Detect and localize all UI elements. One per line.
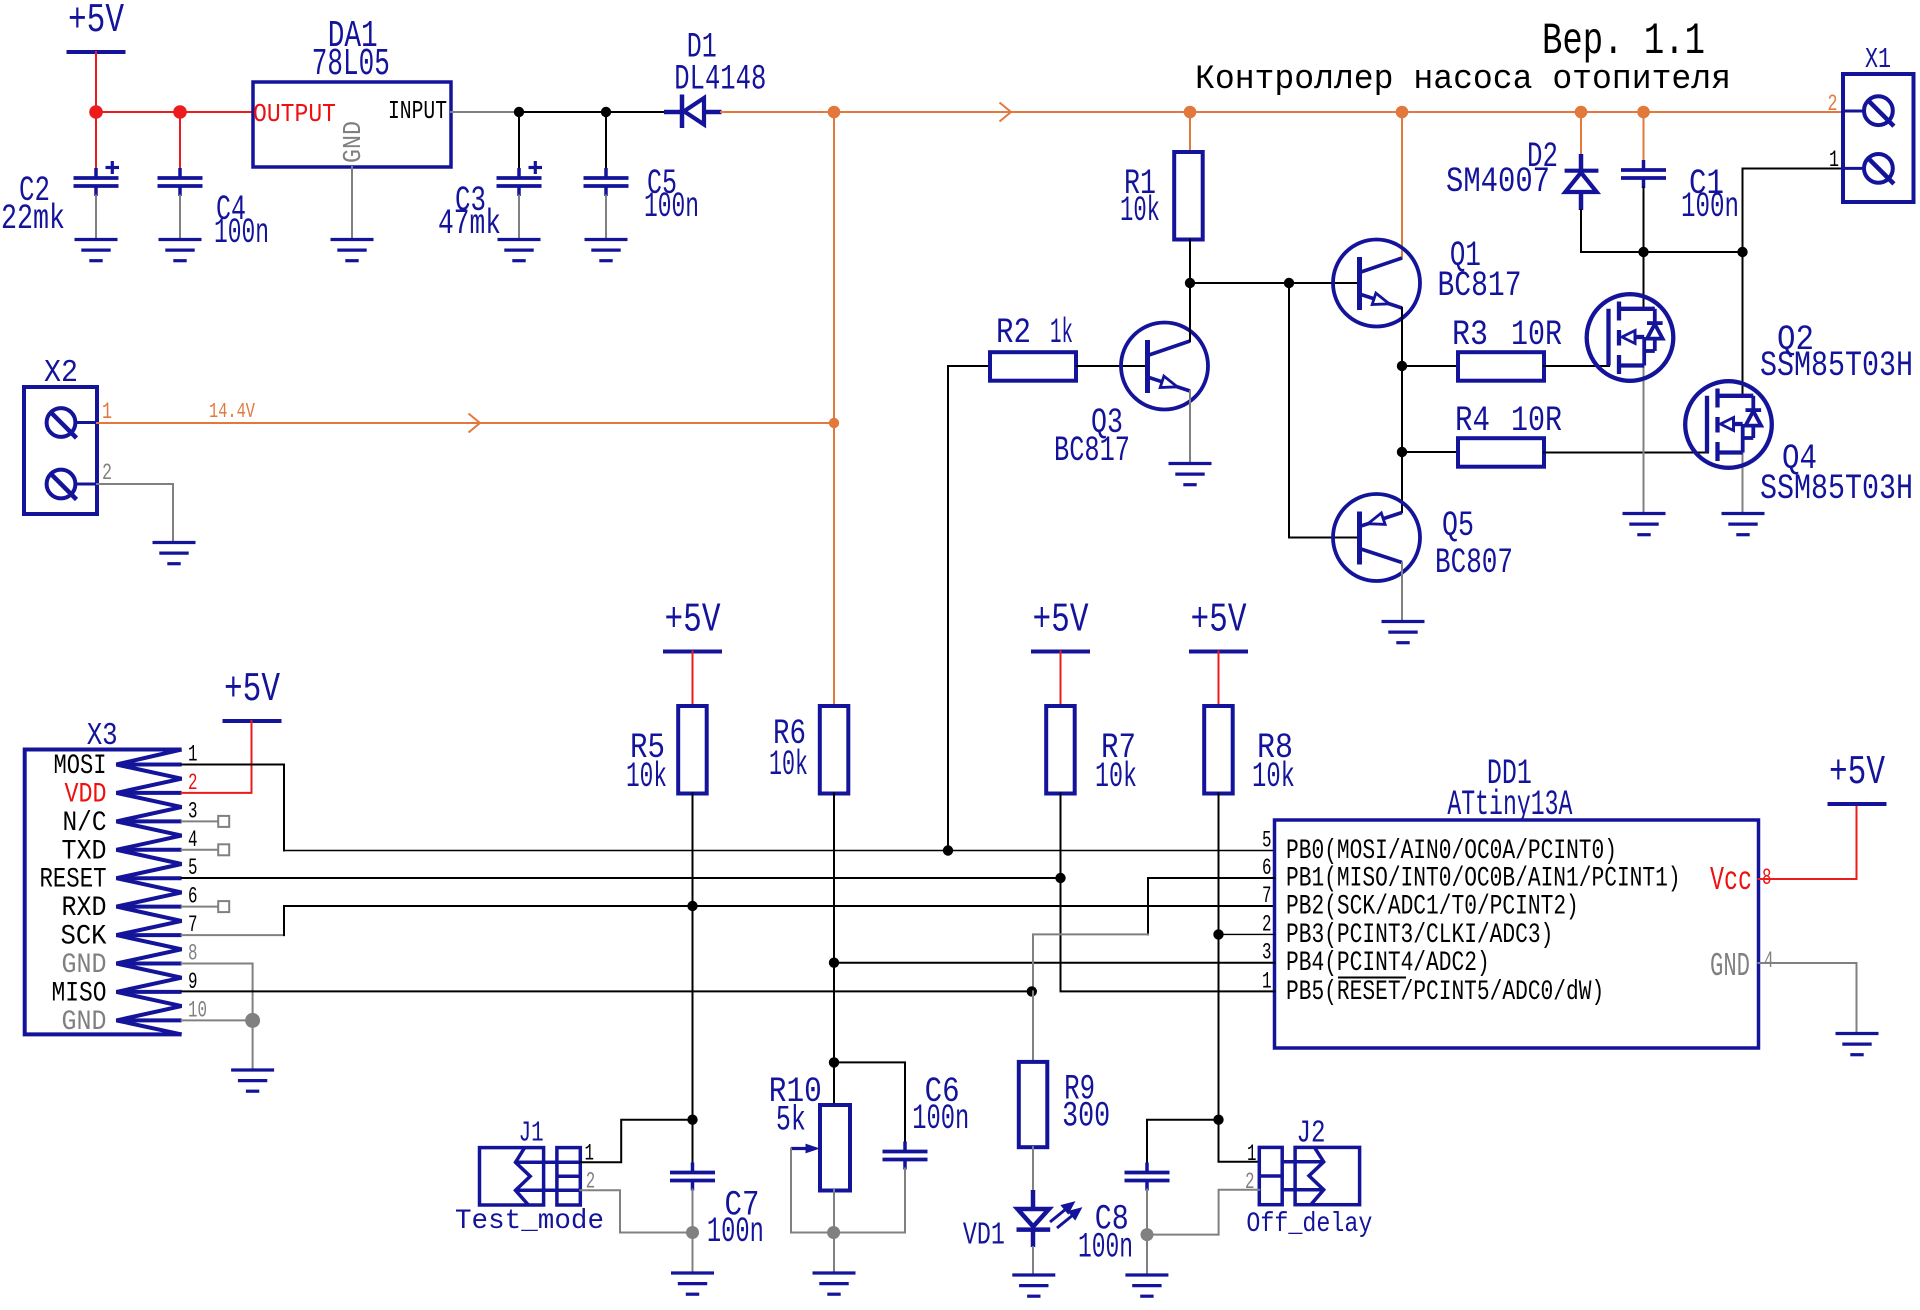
svg-text:PB3(PCINT3/CLKI/ADC3): PB3(PCINT3/CLKI/ADC3) <box>1286 920 1553 951</box>
wire C3 top lead <box>518 112 520 169</box>
ground VD1 <box>1012 1275 1055 1296</box>
pin GND label (rotated) <box>339 121 368 163</box>
wire vertical to Q5 base <box>1289 283 1360 538</box>
node junction C3 <box>514 107 524 117</box>
wire C8 bottom lead <box>1146 1190 1148 1235</box>
svg-text:PB0(MOSI/AIN0/OC0A/PCINT0): PB0(MOSI/AIN0/OC0A/PCINT0) <box>1286 836 1617 867</box>
resistor R9 300 <box>1019 1062 1048 1147</box>
wire R10 top lead <box>833 1062 835 1105</box>
wire J1 pin1 <box>580 1120 692 1163</box>
X1 screw 1 <box>1864 154 1893 183</box>
+5V power symbol above R7 <box>1031 598 1090 652</box>
wire X3 RXD stub <box>182 906 218 908</box>
wire R2 left / PB0 riser <box>948 366 990 851</box>
svg-text:10R: 10R <box>1511 401 1562 441</box>
transistor Q4 SSM85T03H (P-MOSFET) <box>1685 381 1772 468</box>
diode D1 DL4148 <box>664 95 722 129</box>
node junction MISO <box>1027 986 1037 996</box>
jumper J1 <box>480 1148 581 1205</box>
svg-text:VD1: VD1 <box>963 1217 1005 1254</box>
svg-text:PB1(MISO/INT0/OC0B/AIN1/PCINT1: PB1(MISO/INT0/OC0B/AIN1/PCINT1) <box>1286 864 1681 895</box>
wire Q3 collector <box>1189 283 1191 341</box>
capacitor C8 <box>1125 1163 1170 1191</box>
svg-text:10R: 10R <box>1511 315 1562 355</box>
wire R10 bottom lead <box>833 1190 835 1233</box>
wire R1 bottom lead <box>1189 240 1191 284</box>
ground C2 <box>75 240 118 261</box>
wire PB1 jog lower <box>1033 934 1148 991</box>
node junction R3 <box>1397 361 1407 371</box>
svg-text:+5V: +5V <box>224 667 280 713</box>
svg-text:Контроллер насоса отопителя: Контроллер насоса отопителя <box>1195 61 1731 99</box>
svg-text:INPUT: INPUT <box>388 97 447 126</box>
svg-text:GND: GND <box>62 1007 107 1038</box>
wire Vcc to +5V <box>1759 804 1857 879</box>
wire D2 bottom lead <box>1580 210 1582 252</box>
node junction PB2/R5 <box>687 901 697 911</box>
node junction C8/R8 <box>1213 1115 1223 1125</box>
node junction C8 gnd <box>1141 1228 1154 1241</box>
svg-text:1: 1 <box>1247 1141 1257 1167</box>
ground X2 <box>153 543 196 564</box>
wire X1 pin1 <box>1743 169 1844 253</box>
wire D2 top lead <box>1580 112 1582 154</box>
svg-text:22mk: 22mk <box>1 199 65 239</box>
svg-text:100n: 100n <box>1681 187 1739 227</box>
wire DA1 input net <box>451 111 519 113</box>
wire RESET net <box>182 877 1061 879</box>
wire PB2 net <box>284 905 1275 907</box>
wire +5V output rail <box>96 111 253 113</box>
+5V power symbol top-left <box>67 0 126 52</box>
wire R3 to Q2 gate <box>1544 365 1609 367</box>
wire R10 wiper <box>791 1149 834 1233</box>
svg-text:300: 300 <box>1062 1096 1110 1136</box>
capacitor C7 <box>670 1163 715 1191</box>
resistor R7 10k <box>1046 706 1075 794</box>
svg-text:Q5: Q5 <box>1442 506 1474 546</box>
wire PB0 net <box>284 850 1275 852</box>
svg-text:2: 2 <box>1262 911 1272 937</box>
wire arrow on 14.4V <box>469 414 481 433</box>
svg-text:2: 2 <box>1828 91 1838 117</box>
svg-text:N/C: N/C <box>63 808 107 839</box>
svg-text:+5V: +5V <box>665 598 721 644</box>
wire Q2 source to node <box>1643 252 1645 309</box>
svg-text:DL4148: DL4148 <box>674 60 766 100</box>
ground DD1 <box>1836 1034 1879 1055</box>
node junction C2 <box>89 105 103 119</box>
svg-text:100n: 100n <box>707 1212 764 1252</box>
svg-text:SCK: SCK <box>61 922 107 953</box>
wire R9 top lead <box>1032 991 1034 1062</box>
wire Q3 emitter to ground <box>1189 391 1191 464</box>
svg-text:1k: 1k <box>1050 313 1073 353</box>
ground Q2 <box>1623 514 1666 535</box>
wire PB4 net <box>834 962 1275 964</box>
transistor Q5 BC807 <box>1333 494 1420 581</box>
svg-text:GND: GND <box>62 950 107 981</box>
X1 screw 2 <box>1864 96 1893 125</box>
resistor R5 10k <box>678 706 707 794</box>
wire C2 bottom lead <box>95 196 97 239</box>
svg-text:5k: 5k <box>776 1101 806 1141</box>
svg-text:100n: 100n <box>912 1099 969 1139</box>
ground R10 <box>813 1273 856 1294</box>
wire R1 top lead <box>1189 112 1191 152</box>
wire PB1 jog upper <box>1148 878 1275 934</box>
wire R4 left lead <box>1402 451 1458 453</box>
svg-text:BC817: BC817 <box>1054 431 1130 471</box>
wire 14.4V from X2 <box>97 422 834 424</box>
capacitor C4 <box>158 168 203 196</box>
svg-text:J2: J2 <box>1297 1115 1326 1152</box>
svg-text:R3: R3 <box>1452 315 1488 355</box>
svg-text:RESET: RESET <box>40 865 107 896</box>
wire DA1 GND lead <box>351 167 353 238</box>
svg-text:100n: 100n <box>1078 1227 1133 1267</box>
svg-text:X3: X3 <box>87 717 118 754</box>
wire Q1 emitter chain <box>1401 308 1403 512</box>
svg-text:4: 4 <box>1764 948 1774 974</box>
wire X3 ground lead <box>252 1020 254 1070</box>
svg-text:Vcc: Vcc <box>1710 862 1752 900</box>
IC DD1 ATtiny13A <box>1275 820 1759 1048</box>
wire J1 pin2 <box>580 1190 692 1232</box>
capacitor C1 <box>1621 160 1666 188</box>
wire C1 top lead <box>1643 112 1645 161</box>
svg-text:2: 2 <box>102 460 112 486</box>
wire C8 ground lead <box>1146 1235 1148 1275</box>
wire C3 bottom lead <box>518 196 520 239</box>
wire C7 bottom lead <box>692 1190 694 1233</box>
node junction Q5 base tee <box>1284 278 1294 288</box>
wire Q4 drain to ground <box>1742 453 1744 514</box>
svg-text:X2: X2 <box>44 354 78 391</box>
svg-text:+5V: +5V <box>1829 750 1885 796</box>
potentiometer R10 5k <box>820 1105 850 1191</box>
ground Q3 <box>1169 464 1212 485</box>
svg-text:GND: GND <box>1710 948 1750 986</box>
svg-text:10k: 10k <box>1252 757 1295 797</box>
wire R8 top lead <box>1218 652 1220 707</box>
svg-text:100n: 100n <box>644 187 699 227</box>
resistor R2 1k <box>990 352 1076 381</box>
node rail junction R1 <box>1184 106 1197 119</box>
svg-text:14.4V: 14.4V <box>209 400 255 424</box>
wire C5 top lead <box>605 112 607 169</box>
svg-text:OUTPUT: OUTPUT <box>253 100 336 129</box>
connector X3 <box>25 750 182 1035</box>
jumper J2 <box>1259 1147 1359 1204</box>
svg-text:1: 1 <box>1829 147 1839 173</box>
svg-text:5: 5 <box>1262 828 1272 854</box>
node rail junction C1 <box>1637 106 1650 119</box>
wire C7 top lead <box>692 1120 694 1163</box>
node junction PB4/R6 <box>829 958 839 968</box>
wire VD1 cathode lead <box>1032 1247 1034 1275</box>
wire PB3 net <box>1219 933 1275 935</box>
svg-text:78L05: 78L05 <box>312 43 390 86</box>
wire C5 bottom lead <box>605 196 607 239</box>
node junction C1 bottom <box>1638 247 1648 257</box>
node junction C7/J1 <box>687 1115 697 1125</box>
diode D2 SM4007 <box>1565 154 1599 210</box>
connector X1 <box>1843 74 1914 202</box>
ground DA1 <box>331 240 374 261</box>
wire +5V to output rail <box>95 52 97 112</box>
ground C7 <box>671 1273 714 1294</box>
resistor R3 10R <box>1458 352 1544 381</box>
wire C8 branch <box>1147 1120 1219 1163</box>
regulator DA1 78L05 <box>253 82 451 167</box>
wire X3 SCK jog <box>182 934 284 936</box>
svg-text:100n: 100n <box>214 213 269 253</box>
node junction R1/Q1 base <box>1185 278 1195 288</box>
svg-text:+5V: +5V <box>1191 598 1247 644</box>
node rail junction D2 <box>1575 106 1588 119</box>
LED VD1 <box>1017 1190 1051 1247</box>
X2 screw 2 <box>47 470 76 499</box>
svg-text:PB5(RESET/PCINT5/ADC0/dW): PB5(RESET/PCINT5/ADC0/dW) <box>1286 977 1604 1008</box>
wire X3 GND pin10 <box>182 1019 253 1021</box>
capacitor C6 <box>883 1142 928 1170</box>
wire R4 to Q4 gate <box>1544 452 1708 454</box>
svg-text:BC807: BC807 <box>1435 543 1513 583</box>
svg-text:MISO: MISO <box>52 978 107 1009</box>
wire C2 top lead <box>95 112 97 169</box>
ground Q5 <box>1382 622 1425 643</box>
node junction RESET/R7 <box>1055 873 1065 883</box>
wire Q4 source to node <box>1742 252 1744 396</box>
node junction 14.4V/R6 <box>829 418 839 428</box>
node junction R10/C6 <box>829 1057 839 1067</box>
+5V power symbol above X3 <box>223 667 282 721</box>
svg-text:10k: 10k <box>1120 191 1160 231</box>
wire R7 top lead <box>1060 652 1062 707</box>
svg-text:47mk: 47mk <box>438 204 501 244</box>
wire Q5 collector to ground <box>1401 563 1403 622</box>
node junction Q4 top <box>1737 247 1747 257</box>
svg-text:J1: J1 <box>519 1116 544 1149</box>
transistor Q2 SSM85T03H (P-MOSFET) <box>1587 294 1674 381</box>
wire R3 left lead <box>1402 365 1458 367</box>
wire R2 to Q3 base <box>1077 365 1148 367</box>
wire R10 ground lead <box>833 1233 835 1274</box>
ground C4 <box>159 240 202 261</box>
node rail junction R6 <box>828 106 841 119</box>
wire DD1 GND <box>1759 963 1857 1034</box>
wire X3 MOSI jog <box>182 765 284 851</box>
wire C4 bottom lead <box>179 196 181 239</box>
wire X2 pin2 to ground <box>97 484 173 543</box>
svg-text:+5V: +5V <box>1033 598 1089 644</box>
svg-text:RXD: RXD <box>62 893 107 924</box>
svg-text:TXD: TXD <box>62 836 107 867</box>
wire snubber net <box>1581 251 1743 253</box>
transistor Q3 BC817 <box>1121 323 1208 410</box>
resistor R8 10k <box>1204 706 1233 794</box>
connector X2 <box>24 387 97 514</box>
svg-text:SSM85T03H: SSM85T03H <box>1760 346 1913 386</box>
node rail junction Q1 <box>1396 106 1409 119</box>
VD1 light arrows <box>1050 1204 1080 1229</box>
svg-text:R4: R4 <box>1455 401 1490 441</box>
capacitor C5 <box>584 168 629 196</box>
wire base net Q1 <box>1190 282 1360 284</box>
capacitor C3 <box>497 168 542 196</box>
svg-text:2: 2 <box>1245 1169 1255 1195</box>
resistor R6 10k <box>820 706 849 794</box>
wire R6 top lead <box>833 112 835 706</box>
svg-text:PB4(PCINT4/ADC2): PB4(PCINT4/ADC2) <box>1286 948 1490 979</box>
svg-text:ATtiny13A: ATtiny13A <box>1447 785 1572 825</box>
svg-text:7: 7 <box>1262 883 1272 909</box>
wire MISO net <box>182 990 1032 992</box>
svg-text:PB2(SCK/ADC1/T0/PCINT2): PB2(SCK/ADC1/T0/PCINT2) <box>1286 892 1579 923</box>
svg-text:Test_mode: Test_mode <box>455 1206 604 1237</box>
+5V power symbol above R5 <box>663 598 722 652</box>
wire R5 bottom vertical <box>692 794 694 1120</box>
X2 screw 1 <box>47 408 76 437</box>
wire C6 branch <box>834 1062 905 1142</box>
ground Q4 <box>1722 514 1765 535</box>
svg-text:Вер. 1.1: Вер. 1.1 <box>1542 17 1705 67</box>
svg-text:+5V: +5V <box>68 0 124 44</box>
wire J2 pin2 <box>1147 1190 1259 1235</box>
node junction C5 <box>601 107 611 117</box>
wire R7 bottom vertical / PB5 <box>1061 794 1275 992</box>
node junction PB0/R2 <box>943 845 953 855</box>
node junction R4 <box>1397 447 1407 457</box>
ground C3 <box>498 240 541 261</box>
svg-text:BC817: BC817 <box>1438 266 1522 306</box>
transistor Q1 BC817 <box>1333 240 1420 327</box>
ground C5 <box>585 240 628 261</box>
+5V power symbol at DD1 <box>1828 750 1887 804</box>
svg-text:SSM85T03H: SSM85T03H <box>1760 469 1913 509</box>
node junction C4 <box>173 105 187 119</box>
node junction X3 GND <box>245 1013 260 1028</box>
wire arrow on rail <box>1000 103 1012 122</box>
wire R5 top lead <box>692 652 694 707</box>
wire X3 N/C stub <box>182 820 218 822</box>
wire C7 ground lead <box>692 1233 694 1274</box>
wire X3 VDD to +5V <box>182 721 252 793</box>
+5V power symbol above R8 <box>1189 598 1248 652</box>
wire Q2 drain to ground <box>1643 366 1645 514</box>
wire R8 bottom vertical <box>1219 794 1260 1162</box>
svg-text:MOSI: MOSI <box>54 751 107 782</box>
overline RESET on PB5 <box>1338 977 1406 979</box>
svg-text:VDD: VDD <box>65 779 107 810</box>
svg-text:R2: R2 <box>996 313 1031 353</box>
node junction C7 gnd <box>686 1226 699 1239</box>
svg-text:GND: GND <box>339 121 368 163</box>
svg-text:SM4007: SM4007 <box>1446 162 1550 202</box>
svg-text:1: 1 <box>102 399 112 425</box>
ground C8 <box>1125 1275 1168 1296</box>
wire R6 bottom vertical <box>833 794 835 1106</box>
capacitor C2 <box>74 168 119 196</box>
resistor R4 10R <box>1458 438 1544 467</box>
wire 14.4V rail <box>721 111 1843 113</box>
svg-text:10k: 10k <box>1095 757 1137 797</box>
node junction R10 gnd <box>827 1226 840 1239</box>
wire X3 GND pin8 <box>182 964 253 1021</box>
svg-text:X1: X1 <box>1865 43 1891 76</box>
wire R9 bottom lead <box>1032 1147 1034 1192</box>
resistor R1 10k <box>1174 152 1203 240</box>
wire Q1 collector <box>1401 112 1403 258</box>
svg-text:10k: 10k <box>769 745 808 785</box>
svg-text:Off_delay: Off_delay <box>1246 1209 1372 1240</box>
node junction PB3/R8 <box>1213 929 1223 939</box>
wire C1 bottom lead <box>1643 188 1645 253</box>
wire C6 bottom lead <box>834 1169 905 1233</box>
wire X3 TXD stub <box>182 849 218 851</box>
wire C4 top lead <box>179 112 181 169</box>
ground X3 <box>231 1070 274 1091</box>
svg-text:10k: 10k <box>626 757 667 797</box>
